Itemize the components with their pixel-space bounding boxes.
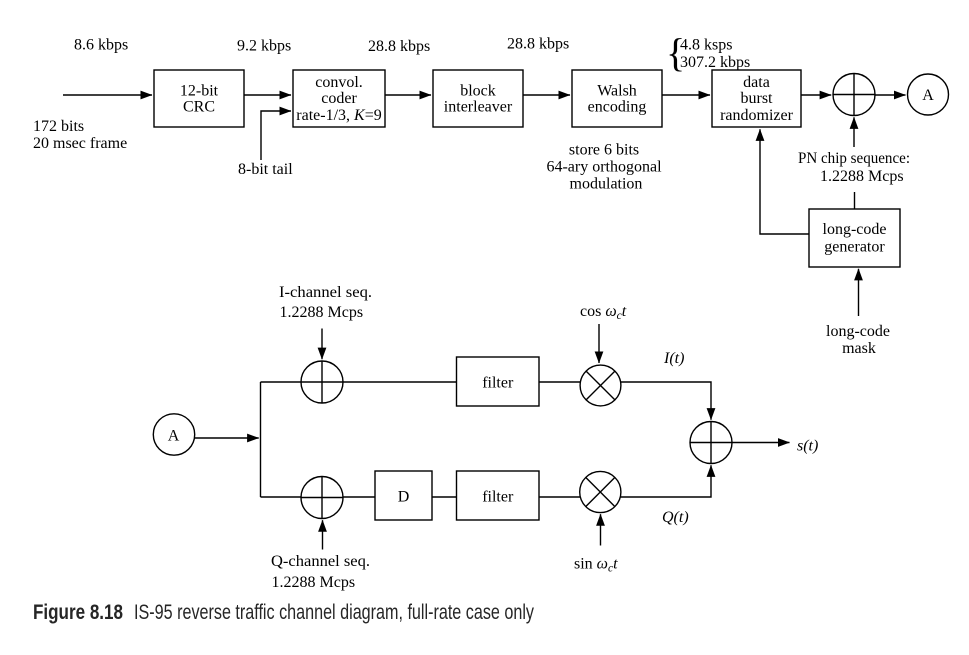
wire trunk to Q adder <box>261 496 302 498</box>
wire filter to Q mixer <box>539 496 584 498</box>
svg-text:172 bits: 172 bits <box>33 118 84 135</box>
adder circle final <box>690 422 732 464</box>
wire long-code mask arrow <box>858 269 860 316</box>
svg-text:28.8 kbps: 28.8 kbps <box>368 38 430 55</box>
svg-text:Walsh: Walsh <box>597 83 637 100</box>
svg-text:burst: burst <box>741 90 774 107</box>
svg-text:8.6 kbps: 8.6 kbps <box>74 37 128 54</box>
svg-text:data: data <box>743 74 770 91</box>
adder circle Q-channel <box>301 477 343 519</box>
svg-text:1.2288 Mcps: 1.2288 Mcps <box>820 168 904 185</box>
wire I-channel seq arrow <box>321 329 323 360</box>
svg-text:307.2 kbps: 307.2 kbps <box>680 54 750 71</box>
node A circle bottom <box>153 414 194 455</box>
box Walsh encoding <box>572 70 662 127</box>
svg-text:9.2 kbps: 9.2 kbps <box>237 38 291 55</box>
svg-text:1.2288 Mcps: 1.2288 Mcps <box>280 304 364 321</box>
wire adder to node A <box>876 94 906 96</box>
svg-text:randomizer: randomizer <box>720 107 794 124</box>
svg-text:I(t): I(t) <box>663 350 684 367</box>
mixer circle Q-channel <box>580 471 621 512</box>
svg-text:encoding: encoding <box>588 99 647 116</box>
wire coder to interleaver <box>385 94 431 96</box>
wire trunk vertical <box>260 382 262 497</box>
wire I adder to filter <box>343 381 457 383</box>
svg-text:A: A <box>168 428 180 445</box>
box filter Q <box>457 471 540 520</box>
svg-text:A: A <box>922 87 934 104</box>
svg-text:PN chip sequence:: PN chip sequence: <box>798 150 910 167</box>
wire sin carrier arrow <box>600 514 602 545</box>
wire input arrow <box>63 94 152 96</box>
svg-text:IS-95 reverse traffic channel: IS-95 reverse traffic channel diagram, f… <box>134 601 534 624</box>
svg-text:convol.: convol. <box>315 74 363 91</box>
wire final adder output <box>732 442 790 444</box>
wire Q mixer to final adder <box>618 465 711 497</box>
svg-text:rate-1/3, K=9: rate-1/3, K=9 <box>296 107 381 124</box>
svg-text:Figure 8.18: Figure 8.18 <box>33 601 123 624</box>
svg-text:28.8 kbps: 28.8 kbps <box>507 36 569 53</box>
svg-text:cos ωct: cos ωct <box>580 303 627 322</box>
adder circle I-channel <box>301 361 343 403</box>
svg-text:sin ωct: sin ωct <box>574 556 618 575</box>
svg-text:generator: generator <box>824 239 885 256</box>
box convolutional coder <box>293 70 385 127</box>
wire Q-channel seq arrow <box>322 520 324 549</box>
box 12-bit CRC <box>154 70 244 127</box>
svg-text:coder: coder <box>321 90 357 107</box>
wire cos carrier arrow <box>598 324 600 363</box>
wire interleaver to Walsh <box>523 94 570 96</box>
svg-text:64-ary orthogonal: 64-ary orthogonal <box>546 159 662 176</box>
box D delay <box>375 471 432 520</box>
wire D to filter <box>432 496 457 498</box>
svg-text:interleaver: interleaver <box>444 99 513 116</box>
wire CRC to coder <box>244 94 291 96</box>
svg-text:Q(t): Q(t) <box>662 509 689 526</box>
wire PN sequence into adder <box>853 117 855 147</box>
box long-code generator <box>809 209 900 267</box>
box filter I <box>457 357 540 406</box>
adder circle top (PN combiner) <box>833 74 876 116</box>
svg-text:CRC: CRC <box>183 99 215 116</box>
svg-text:Q-channel seq.: Q-channel seq. <box>271 553 370 570</box>
wire A to trunk <box>195 437 259 439</box>
svg-text:4.8 ksps: 4.8 ksps <box>680 37 732 54</box>
svg-text:store 6 bits: store 6 bits <box>569 142 639 159</box>
wire Q adder to D <box>343 496 375 498</box>
svg-text:filter: filter <box>482 489 514 506</box>
svg-text:12-bit: 12-bit <box>180 83 219 100</box>
wire 8-bit tail input <box>261 111 291 160</box>
svg-text:D: D <box>398 489 410 506</box>
wire long-code generator to randomizer <box>760 129 809 234</box>
svg-text:mask: mask <box>842 340 876 357</box>
svg-text:s(t): s(t) <box>797 438 818 455</box>
mixer circle I-channel <box>580 365 621 406</box>
svg-text:20 msec frame: 20 msec frame <box>33 135 127 152</box>
svg-text:long-code: long-code <box>823 221 887 238</box>
node A circle top <box>908 74 949 115</box>
wire filter to I mixer <box>539 381 584 383</box>
box data burst randomizer <box>712 70 801 127</box>
svg-text:modulation: modulation <box>570 176 643 193</box>
wire long-code generator up to PN label <box>854 192 856 209</box>
wire Walsh to randomizer <box>662 94 710 96</box>
svg-text:long-code: long-code <box>826 323 890 340</box>
svg-text:I-channel seq.: I-channel seq. <box>279 284 372 301</box>
svg-text:8-bit tail: 8-bit tail <box>238 161 293 178</box>
svg-text:1.2288 Mcps: 1.2288 Mcps <box>272 574 356 591</box>
svg-text:filter: filter <box>482 375 514 392</box>
box block interleaver <box>433 70 523 127</box>
wire I mixer to final adder <box>618 382 711 420</box>
svg-text:block: block <box>460 83 496 100</box>
wire randomizer to adder <box>801 94 831 96</box>
wire trunk to I adder <box>261 381 302 383</box>
